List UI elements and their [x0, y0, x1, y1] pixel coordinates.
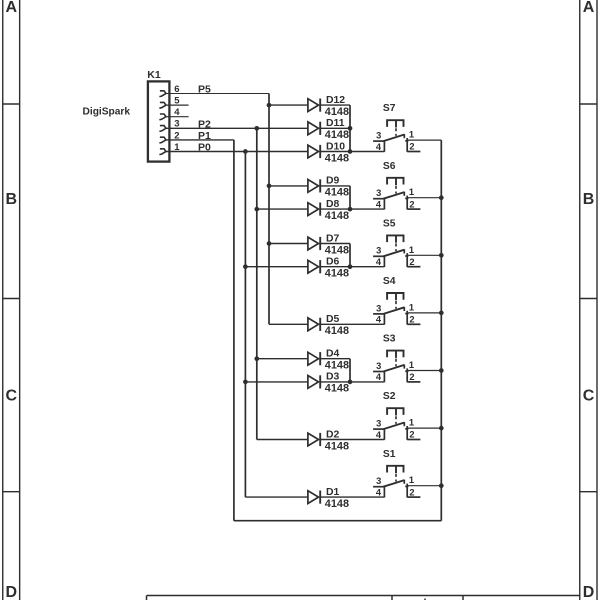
svg-text:A: A: [6, 0, 18, 16]
svg-text:4148: 4148: [325, 268, 349, 280]
svg-text:D2: D2: [326, 429, 340, 440]
svg-text:2: 2: [409, 142, 414, 152]
svg-text:4148: 4148: [325, 360, 349, 372]
svg-text:A: A: [583, 0, 595, 16]
svg-text:3: 3: [376, 419, 381, 429]
svg-text:4148: 4148: [325, 244, 349, 256]
svg-text:D12: D12: [326, 95, 345, 106]
svg-text:1: 1: [409, 187, 414, 197]
svg-text:4148: 4148: [325, 129, 349, 141]
svg-text:DigiSpark: DigiSpark: [83, 107, 131, 118]
svg-text:4148: 4148: [325, 106, 349, 118]
svg-text:4: 4: [376, 142, 382, 152]
svg-text:B: B: [583, 191, 595, 208]
svg-text:B: B: [6, 191, 18, 208]
svg-text:S2: S2: [383, 391, 396, 402]
svg-text:4148: 4148: [325, 152, 349, 164]
svg-text:1: 1: [409, 418, 414, 428]
svg-text:D11: D11: [326, 118, 345, 129]
svg-text:3: 3: [376, 361, 381, 371]
svg-text:4148: 4148: [325, 383, 349, 395]
svg-text:3: 3: [376, 188, 381, 198]
svg-text:D6: D6: [326, 257, 340, 268]
svg-text:2: 2: [409, 257, 414, 267]
svg-text:D9: D9: [326, 176, 340, 187]
svg-text:4148: 4148: [325, 325, 349, 337]
svg-text:3: 3: [376, 476, 381, 486]
svg-text:2: 2: [409, 430, 414, 440]
svg-text:K1: K1: [147, 69, 161, 81]
svg-text:S3: S3: [383, 334, 396, 345]
svg-text:4148: 4148: [325, 187, 349, 199]
svg-text:3: 3: [376, 131, 381, 141]
svg-text:D8: D8: [326, 199, 340, 210]
svg-text:4148: 4148: [325, 440, 349, 452]
svg-text:D5: D5: [326, 314, 340, 325]
svg-text:1: 1: [409, 475, 414, 485]
svg-text:4: 4: [376, 257, 382, 267]
svg-text:C: C: [583, 388, 595, 405]
svg-text:4: 4: [376, 315, 382, 325]
svg-text:1: 1: [409, 302, 414, 312]
svg-text:S7: S7: [383, 103, 396, 114]
svg-text:D1: D1: [326, 487, 340, 498]
svg-text:2: 2: [409, 487, 414, 497]
svg-text:D3: D3: [326, 372, 340, 383]
svg-text:3: 3: [376, 246, 381, 256]
svg-text:4148: 4148: [325, 210, 349, 222]
svg-text:4148: 4148: [325, 498, 349, 510]
svg-text:4: 4: [376, 199, 382, 209]
svg-text:D7: D7: [326, 233, 340, 244]
svg-text:2: 2: [409, 315, 414, 325]
svg-text:2: 2: [409, 199, 414, 209]
svg-text:1: 1: [409, 245, 414, 255]
svg-text:D: D: [583, 584, 595, 600]
svg-text:C: C: [6, 388, 18, 405]
svg-text:D10: D10: [326, 141, 345, 152]
svg-text:S6: S6: [383, 161, 396, 172]
svg-text:S1: S1: [383, 449, 396, 460]
svg-text:4: 4: [376, 372, 382, 382]
svg-text:D: D: [6, 584, 18, 600]
svg-text:S5: S5: [383, 218, 396, 229]
svg-text:D4: D4: [326, 349, 340, 360]
svg-text:4: 4: [376, 430, 382, 440]
svg-text:4: 4: [376, 487, 382, 497]
svg-text:1: 1: [409, 130, 414, 140]
svg-text:2: 2: [409, 372, 414, 382]
svg-text:S4: S4: [383, 276, 396, 287]
svg-text:1: 1: [409, 360, 414, 370]
svg-text:3: 3: [376, 303, 381, 313]
